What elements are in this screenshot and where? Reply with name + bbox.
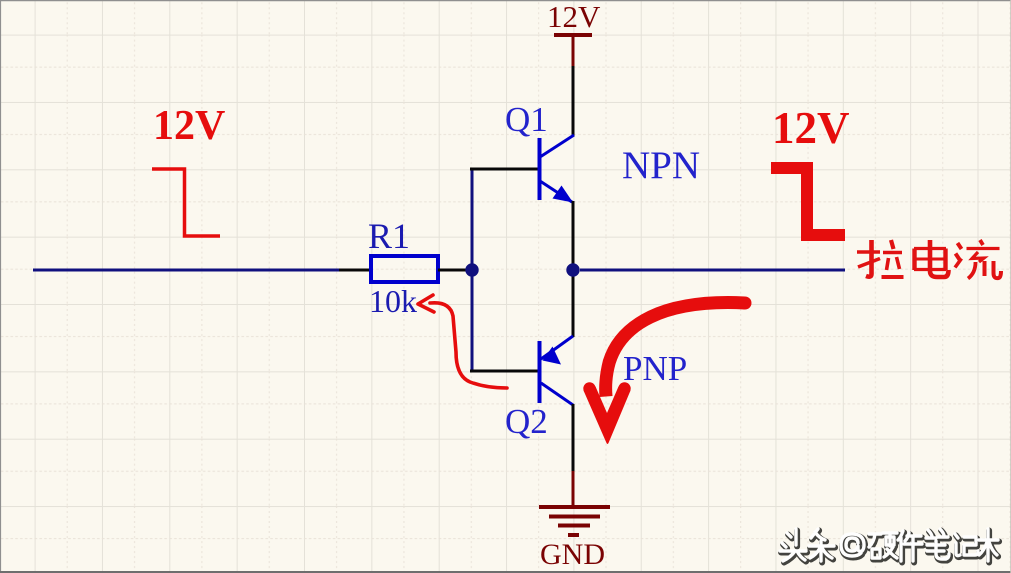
wire: Q1 emitter to Q2 emitter column (black) bbox=[572, 201, 575, 337]
watermark 头条@硬件笔记本 bbox=[780, 529, 999, 563]
svg-text:NPN: NPN bbox=[622, 144, 700, 187]
wire: ground stub (dark red) bbox=[572, 471, 575, 505]
svg-text:Q2: Q2 bbox=[505, 402, 548, 441]
wire: input to resistor R1 (black) bbox=[339, 269, 371, 272]
wire: base bus vertical (navy) bbox=[471, 169, 474, 371]
wire: Q1 base wire (black) bbox=[470, 168, 538, 171]
svg-text:Q1: Q1 bbox=[505, 100, 548, 139]
annotation: chinese char 电 (electric) bbox=[914, 240, 949, 277]
svg-text:GND: GND bbox=[540, 538, 605, 571]
wire: supply to Q1 collector (black) bbox=[572, 66, 575, 136]
annotation: chinese char 拉 (pull) bbox=[857, 240, 904, 277]
svg-text:PNP: PNP bbox=[623, 349, 687, 388]
transistor Q2 (PNP) bbox=[540, 336, 574, 405]
annotation: left input step waveform (red) bbox=[152, 169, 220, 236]
svg-text:12V: 12V bbox=[153, 103, 225, 149]
wire: left input rail (navy) bbox=[33, 269, 339, 272]
resistor R1 bbox=[371, 256, 438, 282]
svg-text:10k: 10k bbox=[369, 283, 417, 319]
power symbol 12V bar bbox=[554, 35, 592, 68]
ground symbol bbox=[539, 507, 610, 535]
svg-text:12V: 12V bbox=[772, 103, 850, 153]
annotation: big thick red arrow (pull current direction) bbox=[583, 296, 751, 444]
wire: resistor R1 to node A (black) bbox=[438, 269, 472, 272]
transistor Q1 (NPN) bbox=[540, 135, 575, 203]
svg-text:R1: R1 bbox=[368, 216, 410, 256]
annotation: chinese char 流 (flow) bbox=[955, 240, 1001, 279]
wire: output rail right (navy) bbox=[580, 269, 845, 272]
annotation: right output step waveform (thick red) bbox=[771, 168, 845, 235]
wire: Q2 collector to ground (black) bbox=[572, 404, 575, 471]
wire: Q2 base wire (black) bbox=[470, 370, 538, 373]
node B junction dot (output) bbox=[566, 263, 579, 276]
annotation: thin red arrow pointing to 10k bbox=[418, 295, 507, 388]
svg-text:12V: 12V bbox=[547, 0, 601, 34]
node A junction dot bbox=[465, 263, 478, 276]
